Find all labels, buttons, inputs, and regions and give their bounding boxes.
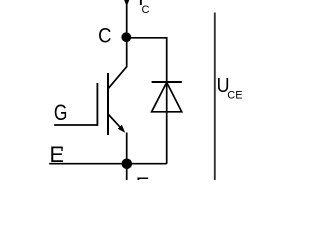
svg-text:CE: CE [227,89,242,101]
svg-text:E: E [136,174,150,181]
svg-text:G: G [54,101,68,125]
svg-text:': ' [60,143,64,164]
svg-text:C: C [142,4,150,16]
svg-text:C: C [98,25,111,49]
